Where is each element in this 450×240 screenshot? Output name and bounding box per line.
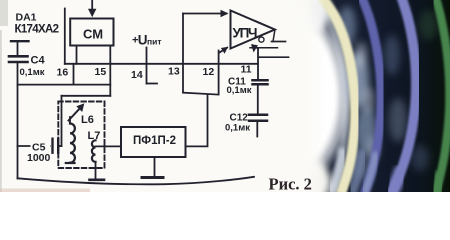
svg-text:К174ХА2: К174ХА2 (15, 24, 60, 36)
svg-text:L6: L6 (81, 114, 94, 126)
svg-text:14: 14 (131, 69, 143, 81)
svg-text:16: 16 (57, 67, 69, 79)
svg-text:пит: пит (147, 36, 162, 46)
svg-text:C4: C4 (31, 55, 46, 67)
svg-text:12: 12 (203, 66, 215, 78)
svg-text:0,1мк: 0,1мк (20, 67, 45, 78)
svg-text:Рис. 2: Рис. 2 (269, 175, 312, 193)
svg-text:ПФ1П-2: ПФ1П-2 (133, 135, 176, 147)
svg-text:11: 11 (241, 64, 252, 76)
svg-text:13: 13 (168, 66, 180, 78)
svg-text:DA1: DA1 (16, 12, 37, 24)
svg-text:L7: L7 (88, 130, 101, 142)
svg-text:СМ: СМ (83, 27, 103, 42)
svg-text:0,1мк: 0,1мк (225, 123, 250, 134)
svg-text:0,1мк: 0,1мк (227, 85, 252, 96)
svg-text:15: 15 (95, 66, 107, 78)
svg-text:УПЧ: УПЧ (233, 26, 258, 41)
svg-text:1000: 1000 (27, 152, 51, 164)
